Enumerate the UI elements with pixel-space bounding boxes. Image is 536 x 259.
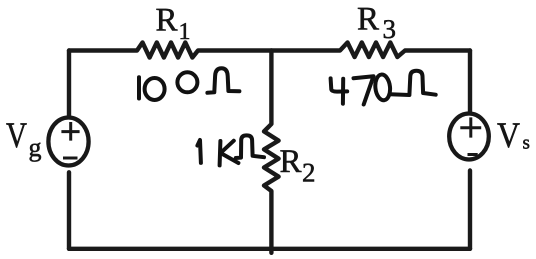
svg-text:R: R (357, 2, 379, 38)
svg-text:2: 2 (302, 157, 316, 187)
svg-text:R: R (280, 144, 302, 180)
svg-text:s: s (523, 133, 530, 154)
svg-text:V: V (6, 115, 27, 155)
svg-text:V: V (497, 115, 520, 155)
svg-text:3: 3 (383, 14, 397, 44)
svg-text:R: R (156, 3, 178, 39)
svg-text:1: 1 (179, 19, 191, 45)
svg-text:g: g (29, 133, 42, 162)
